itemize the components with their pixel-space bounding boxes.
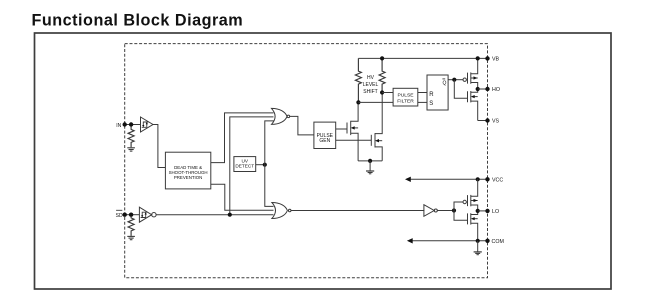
- block pulse generator: [314, 122, 336, 148]
- wire pulse filter to latch S: [418, 101, 427, 103]
- figure border frame: [35, 33, 612, 289]
- node junction inverter output: [452, 208, 456, 212]
- wire to low NMOS gate: [454, 211, 468, 221]
- svg-text:VS: VS: [492, 119, 500, 125]
- svg-text:FILTER: FILTER: [397, 99, 414, 105]
- svg-text:VCC: VCC: [492, 178, 503, 184]
- wire R1 junction to pulse filter S input: [358, 101, 393, 103]
- svg-text:GEN: GEN: [319, 138, 330, 144]
- ground SD (earth): [127, 236, 135, 239]
- pin LO: [485, 209, 499, 215]
- svg-text:SHIFT: SHIFT: [363, 89, 377, 95]
- node SD label (with overbar): [116, 213, 123, 219]
- wire HO node to pin: [478, 88, 488, 90]
- svg-text:HO: HO: [492, 87, 500, 93]
- svg-text:VB: VB: [492, 57, 500, 63]
- pin COM: [485, 239, 504, 245]
- ground low-side (earth): [474, 241, 482, 255]
- node junction source rail: [368, 159, 372, 163]
- ground IN (earth): [127, 148, 135, 151]
- svg-text:Functional Block Diagram: Functional Block Diagram: [32, 12, 244, 30]
- resistor SD pulldown: [128, 217, 134, 236]
- svg-text:Q: Q: [442, 80, 446, 86]
- label HV LEVEL SHIFT: [363, 75, 379, 95]
- svg-text:S: S: [429, 101, 433, 107]
- svg-text:LEVEL: LEVEL: [363, 82, 379, 88]
- gate NOR2 (low side): [272, 203, 291, 219]
- svg-text:DETECT: DETECT: [235, 164, 254, 169]
- svg-text:PULSE: PULSE: [397, 93, 414, 99]
- wire IN pin to buffer: [125, 124, 141, 126]
- wire R2 junction to pulse filter R input: [382, 92, 393, 94]
- transistor M2 level-shift NMOS: [371, 93, 382, 161]
- transistor low-side NMOS: [468, 211, 478, 241]
- wire dead-time output1 to NOR1 input: [211, 113, 274, 163]
- node junction latch output: [452, 78, 456, 82]
- wire latch output to high NMOS gate: [454, 80, 467, 99]
- node IN pin dot: [123, 122, 127, 126]
- node junction R2 top on VB rail: [380, 56, 384, 60]
- svg-text:R: R: [429, 92, 434, 98]
- node junction R1 bottom: [356, 100, 360, 104]
- resistor R1 level-shift: [355, 58, 361, 102]
- node junction VB rail / PMOS source: [476, 56, 480, 60]
- node junction SD branch: [228, 213, 232, 217]
- wire pulse gen output to M2 gate: [336, 139, 372, 141]
- block pulse filter: [393, 88, 418, 106]
- wire pulse gen output to M1 gate: [336, 128, 347, 130]
- svg-text:IN: IN: [116, 123, 121, 129]
- node junction VCC: [476, 177, 480, 181]
- inverter low-side: [424, 205, 437, 217]
- node IN label: [116, 123, 121, 129]
- svg-text:PREVENTION: PREVENTION: [174, 175, 203, 180]
- pin HO: [485, 87, 500, 93]
- node junction UV output: [263, 163, 267, 167]
- wire UV to NOR2 input: [265, 165, 274, 207]
- node junction LO: [476, 209, 480, 213]
- ground level-shift (earth): [366, 161, 374, 174]
- wire inverter output to gates: [437, 210, 454, 212]
- wire VCC rail with arrow: [405, 177, 488, 182]
- resistor IN pulldown: [128, 127, 134, 148]
- pin VB: [485, 56, 499, 62]
- svg-text:LO: LO: [492, 209, 499, 215]
- node junction R2 bottom: [380, 90, 384, 94]
- wire UV to NOR1 input: [265, 121, 274, 165]
- transistor M1 level-shift NMOS: [347, 102, 358, 160]
- wire SD pin to buffer: [125, 214, 140, 216]
- wire level-shift source rail: [358, 160, 382, 162]
- wire SD overbar: [116, 209, 122, 211]
- transistor high-side NMOS: [468, 89, 478, 121]
- wire dead-time output2 to NOR2 input: [211, 184, 274, 210]
- wire COM rail with arrow: [407, 238, 488, 243]
- resistor R2 level-shift: [379, 58, 385, 92]
- IC boundary (dashed): [125, 44, 488, 278]
- svg-text:COM: COM: [492, 239, 504, 245]
- wire VB rail: [358, 57, 487, 59]
- svg-text:SD: SD: [116, 213, 123, 219]
- wire UV detect output: [256, 164, 265, 166]
- latch RS flip-flop: [427, 75, 448, 110]
- transistor low-side PMOS: [463, 179, 478, 211]
- buffer U1 schmitt input IN: [141, 117, 154, 132]
- wire NOR1 output to pulse gen: [290, 116, 314, 134]
- buffer U2 schmitt inverting input SD: [139, 207, 156, 222]
- node IN resistor tap junction: [129, 122, 133, 126]
- block UV detect: [234, 157, 256, 172]
- node junction COM: [476, 239, 480, 243]
- transistor high-side PMOS: [463, 58, 478, 89]
- wire pulse filter to latch R: [418, 92, 427, 94]
- svg-text:UV: UV: [242, 158, 249, 163]
- node SD resistor tap junction: [129, 213, 133, 217]
- wire LO node to pin: [478, 210, 488, 212]
- node junction HO: [476, 87, 480, 91]
- wire VS down and to pin: [478, 120, 488, 122]
- wire latch output to gates: [448, 79, 463, 81]
- wire to low PMOS gate: [454, 202, 463, 211]
- wire SD buffer output to NOR2: [156, 214, 273, 216]
- gate NOR1 (high side): [272, 108, 290, 124]
- block dead time and shoot-through prevention: [165, 152, 210, 189]
- pin VCC: [485, 177, 503, 183]
- wire SD line branch to NOR1 input: [230, 117, 274, 215]
- svg-text:HV: HV: [367, 75, 375, 81]
- wire IN buffer output to dead-time box: [153, 125, 165, 168]
- pin VS: [485, 118, 499, 124]
- node SD pin dot: [123, 213, 127, 217]
- wire NOR2 output to inverter: [291, 210, 424, 212]
